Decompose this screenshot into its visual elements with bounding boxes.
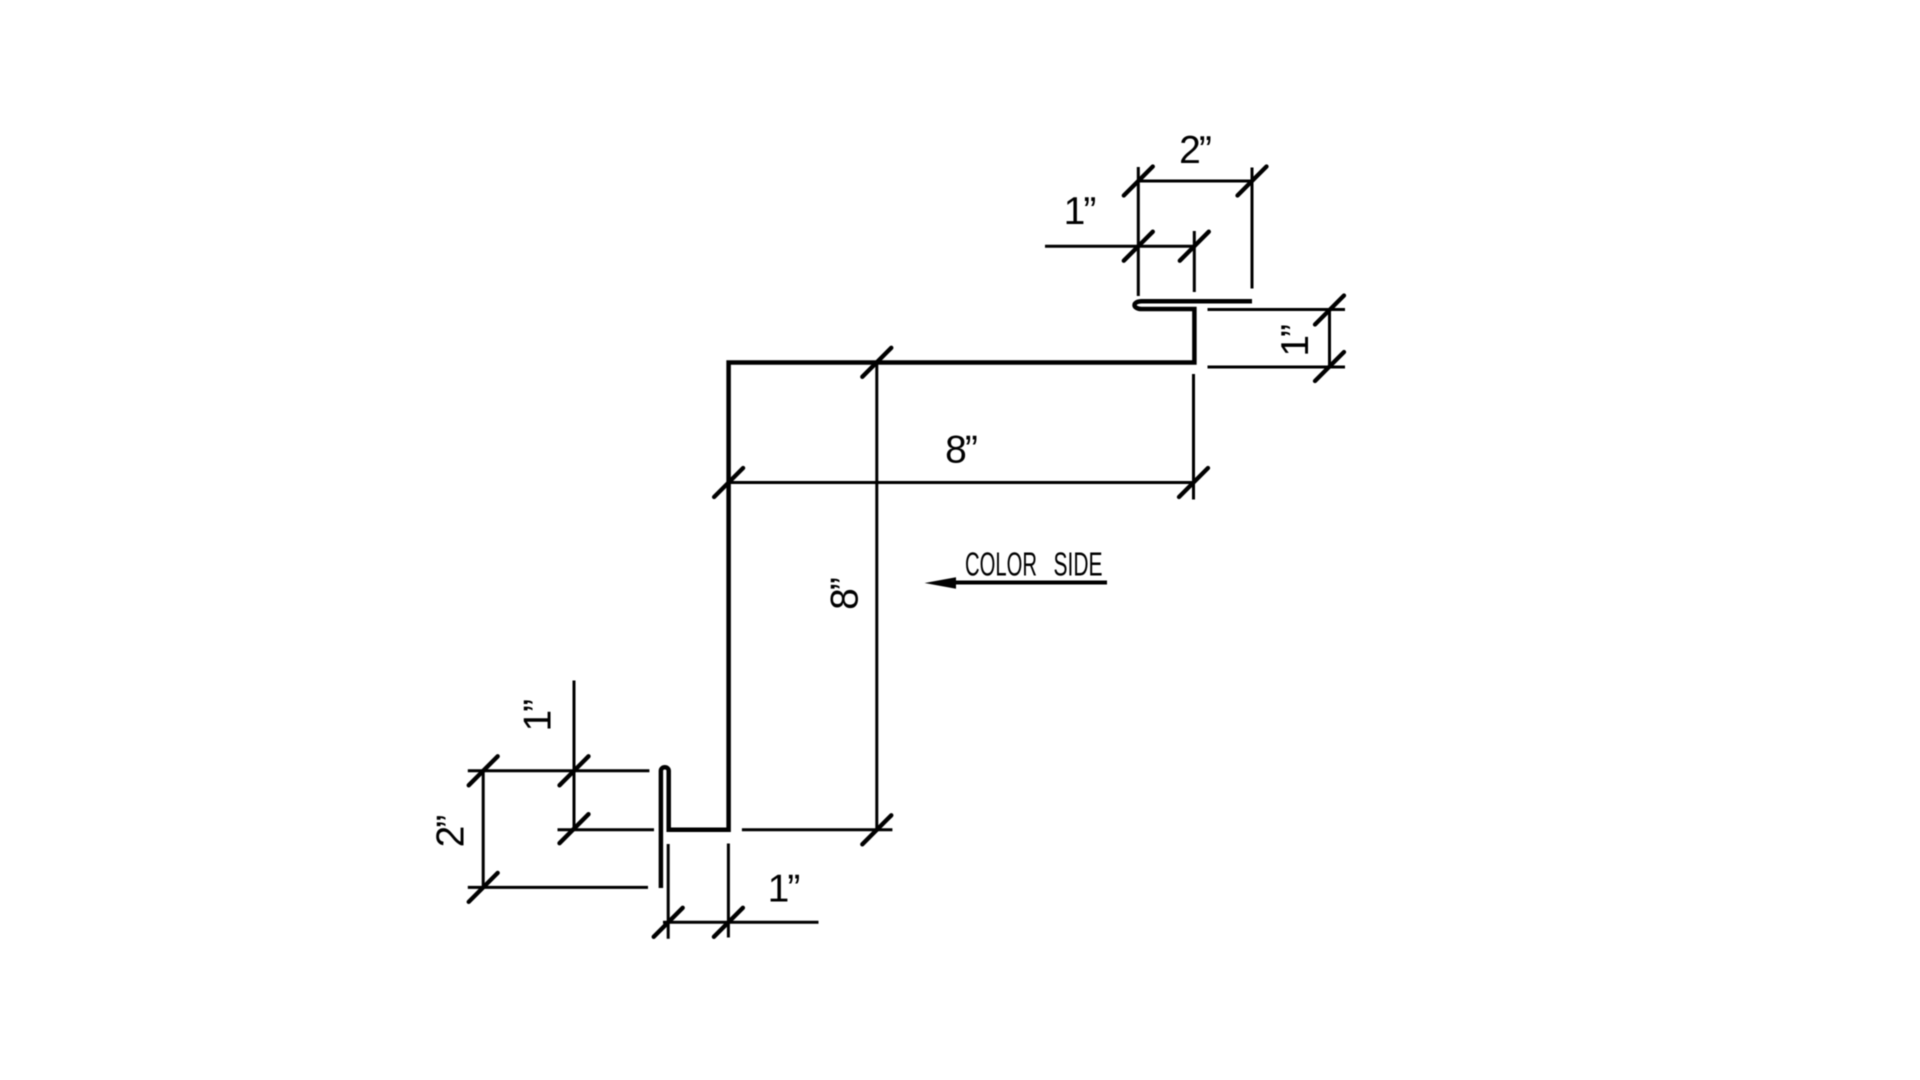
dimension 1-inch top: ticks bbox=[1124, 232, 1209, 261]
dimension 1-inch bottom-left: ticks bbox=[560, 756, 589, 843]
dimension 2-inch top: ticks bbox=[1124, 167, 1267, 196]
svg-text:2”: 2” bbox=[1179, 129, 1211, 172]
dimension 1-inch right: ticks bbox=[1315, 296, 1344, 382]
dimension 1-inch bottom: dim line bbox=[663, 844, 819, 939]
svg-text:1”: 1” bbox=[768, 868, 800, 911]
dimension 2-inch top: dim line bbox=[1138, 167, 1252, 296]
svg-text:1”: 1” bbox=[517, 700, 560, 732]
dimension 1-inch bottom: ticks bbox=[654, 908, 743, 937]
dimension 1-inch bottom-left: dim line bbox=[468, 681, 654, 830]
dimension 2-inch bottom-left: dim line bbox=[468, 771, 648, 888]
svg-text:COLOR: COLOR bbox=[965, 546, 1037, 583]
svg-text:2”: 2” bbox=[430, 816, 473, 848]
dimension 1-inch top: dim line bbox=[1045, 231, 1194, 292]
svg-text:1”: 1” bbox=[1064, 190, 1096, 233]
svg-text:1”: 1” bbox=[1274, 325, 1317, 357]
color side arrow bbox=[940, 581, 1107, 585]
dimension 1-inch right: extension and dim lines bbox=[1208, 310, 1346, 368]
dimension 8-inch horizontal: dim line bbox=[729, 374, 1194, 500]
profile outline: top hem, top face, web, bottom face, bottom hem bbox=[661, 301, 1252, 888]
dimension 2-inch bottom-left: ticks bbox=[469, 756, 498, 902]
dimension 8-inch vertical: ticks bbox=[862, 348, 891, 845]
svg-text:8”: 8” bbox=[824, 578, 867, 610]
dimension 8-inch vertical: dim line bbox=[742, 362, 893, 830]
svg-text:8”: 8” bbox=[945, 429, 977, 472]
svg-text:SIDE: SIDE bbox=[1054, 546, 1103, 583]
dimension 8-inch horizontal: ticks bbox=[714, 468, 1208, 497]
